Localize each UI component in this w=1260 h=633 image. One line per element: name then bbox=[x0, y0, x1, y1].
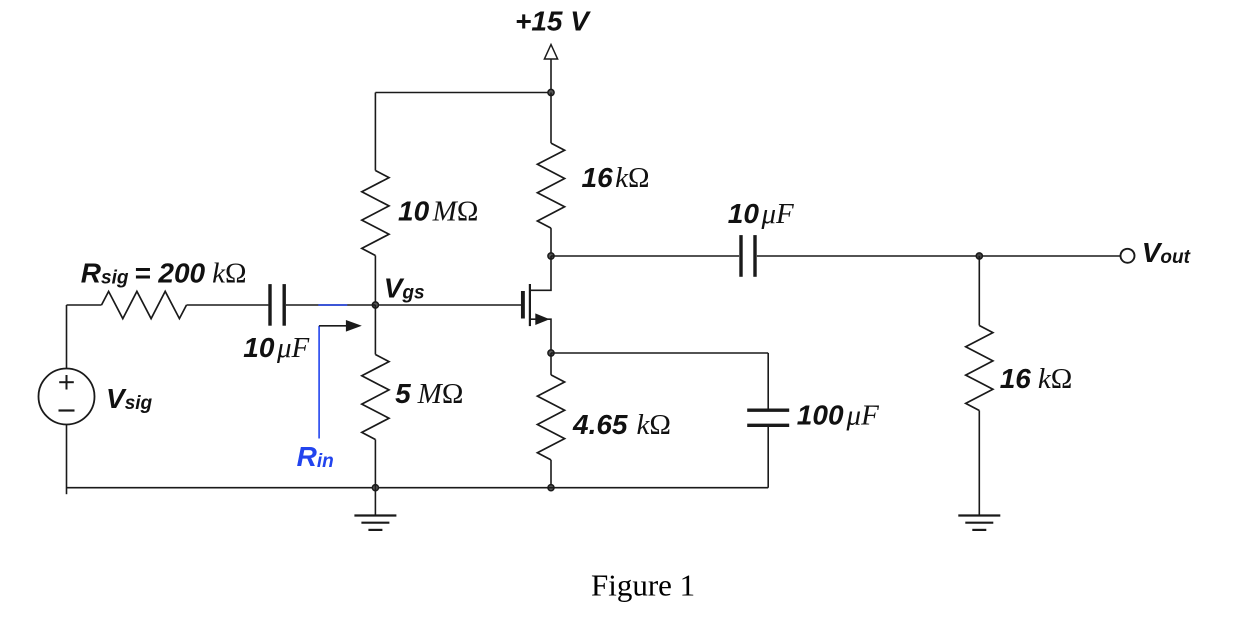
Rin pointer blue vertical bbox=[318, 326, 320, 439]
wire Rsig to C1 bbox=[187, 304, 269, 306]
svg-text:4.65kΩ: 4.65kΩ bbox=[572, 409, 671, 441]
terminal Vout open circle bbox=[1121, 249, 1135, 263]
node VDD junction bbox=[548, 89, 554, 95]
wire drain to C2 bbox=[551, 255, 739, 257]
wire top rail bbox=[375, 92, 551, 94]
svg-text:Vsig: Vsig bbox=[106, 383, 153, 414]
wire source to Rs bbox=[550, 353, 552, 375]
transistor Q1 gate bar bbox=[521, 291, 525, 319]
transistor Q1 drain lead bbox=[530, 256, 551, 290]
wire Rs to bottom rail bbox=[550, 460, 552, 488]
source Vsig circle bbox=[39, 369, 95, 425]
wire 16k to drain node bbox=[550, 228, 552, 256]
resistor R 16k drain bbox=[537, 143, 564, 228]
transistor Q1 channel bbox=[529, 284, 531, 326]
wire bottom rail bbox=[67, 487, 769, 489]
wire source to Rsig bbox=[67, 304, 102, 306]
transistor Q1 gate wire bbox=[375, 304, 521, 306]
wire R load to ground bbox=[978, 411, 980, 516]
svg-text:10MΩ: 10MΩ bbox=[398, 196, 478, 228]
Rin pointer arrowhead bbox=[346, 320, 362, 332]
transistor Q1 source arrow bbox=[535, 313, 549, 325]
node drain junction bbox=[548, 253, 554, 259]
svg-text:10μF: 10μF bbox=[728, 198, 794, 230]
wire C1 to Vgs node bbox=[286, 304, 375, 306]
wire left column lower bbox=[66, 425, 68, 495]
svg-text:Rsig = 200kΩ: Rsig = 200kΩ bbox=[81, 258, 247, 290]
power symbol +15V triangle bbox=[544, 45, 557, 60]
wire out junction to R load bbox=[978, 256, 980, 326]
resistor R 5M bbox=[362, 355, 389, 440]
wire right branch upper bbox=[550, 93, 552, 144]
Rin pointer arrow shaft bbox=[319, 325, 347, 327]
ground left bbox=[354, 516, 396, 530]
svg-text:+15 V: +15 V bbox=[515, 6, 591, 37]
wire 10M to Vgs node bbox=[374, 256, 376, 306]
svg-text:Rin: Rin bbox=[297, 441, 334, 472]
node source junction bbox=[548, 350, 554, 356]
wire left column upper bbox=[66, 305, 68, 369]
resistor R 10M bbox=[362, 171, 389, 256]
capacitor C3 100uF plates bbox=[747, 410, 789, 425]
wire C2 to Vout bbox=[757, 255, 1120, 257]
wire left branch upper bbox=[374, 93, 376, 171]
wire ground stub left bbox=[374, 488, 376, 516]
source Vsig plus bbox=[59, 375, 74, 390]
wire Vgs to 5M bbox=[374, 305, 376, 355]
capacitor C1 10uF plates bbox=[270, 284, 284, 326]
resistor Rsig bbox=[102, 291, 187, 318]
wire Rin blue segment on gate line bbox=[318, 304, 347, 306]
svg-text:Vgs: Vgs bbox=[384, 273, 425, 304]
wire source to bypass cap bbox=[551, 352, 768, 354]
wire VDD stub bbox=[550, 59, 552, 93]
node output junction bbox=[976, 253, 982, 259]
svg-text:16kΩ: 16kΩ bbox=[1000, 363, 1073, 395]
svg-text:16kΩ: 16kΩ bbox=[582, 162, 650, 194]
wire bypass cap lower lead bbox=[767, 427, 769, 488]
svg-text:5MΩ: 5MΩ bbox=[395, 378, 463, 410]
source Vsig minus bbox=[59, 409, 75, 411]
resistor R 16k load bbox=[966, 326, 993, 411]
ground right bbox=[958, 516, 1000, 530]
resistor Rs 4.65k bbox=[537, 375, 564, 460]
svg-text:Vout: Vout bbox=[1142, 237, 1191, 268]
transistor Q1 source lead bbox=[530, 319, 551, 353]
svg-text:100μF: 100μF bbox=[797, 400, 879, 432]
node bottom left junction bbox=[372, 485, 378, 491]
wire 5M to bottom rail bbox=[374, 440, 376, 488]
capacitor C2 10uF plates bbox=[741, 235, 755, 277]
node Rs bottom junction bbox=[548, 485, 554, 491]
svg-text:10μF: 10μF bbox=[243, 332, 309, 364]
wire bypass cap upper lead bbox=[767, 353, 769, 409]
node Vgs junction bbox=[372, 302, 378, 308]
svg-text:Figure 1: Figure 1 bbox=[591, 568, 695, 603]
